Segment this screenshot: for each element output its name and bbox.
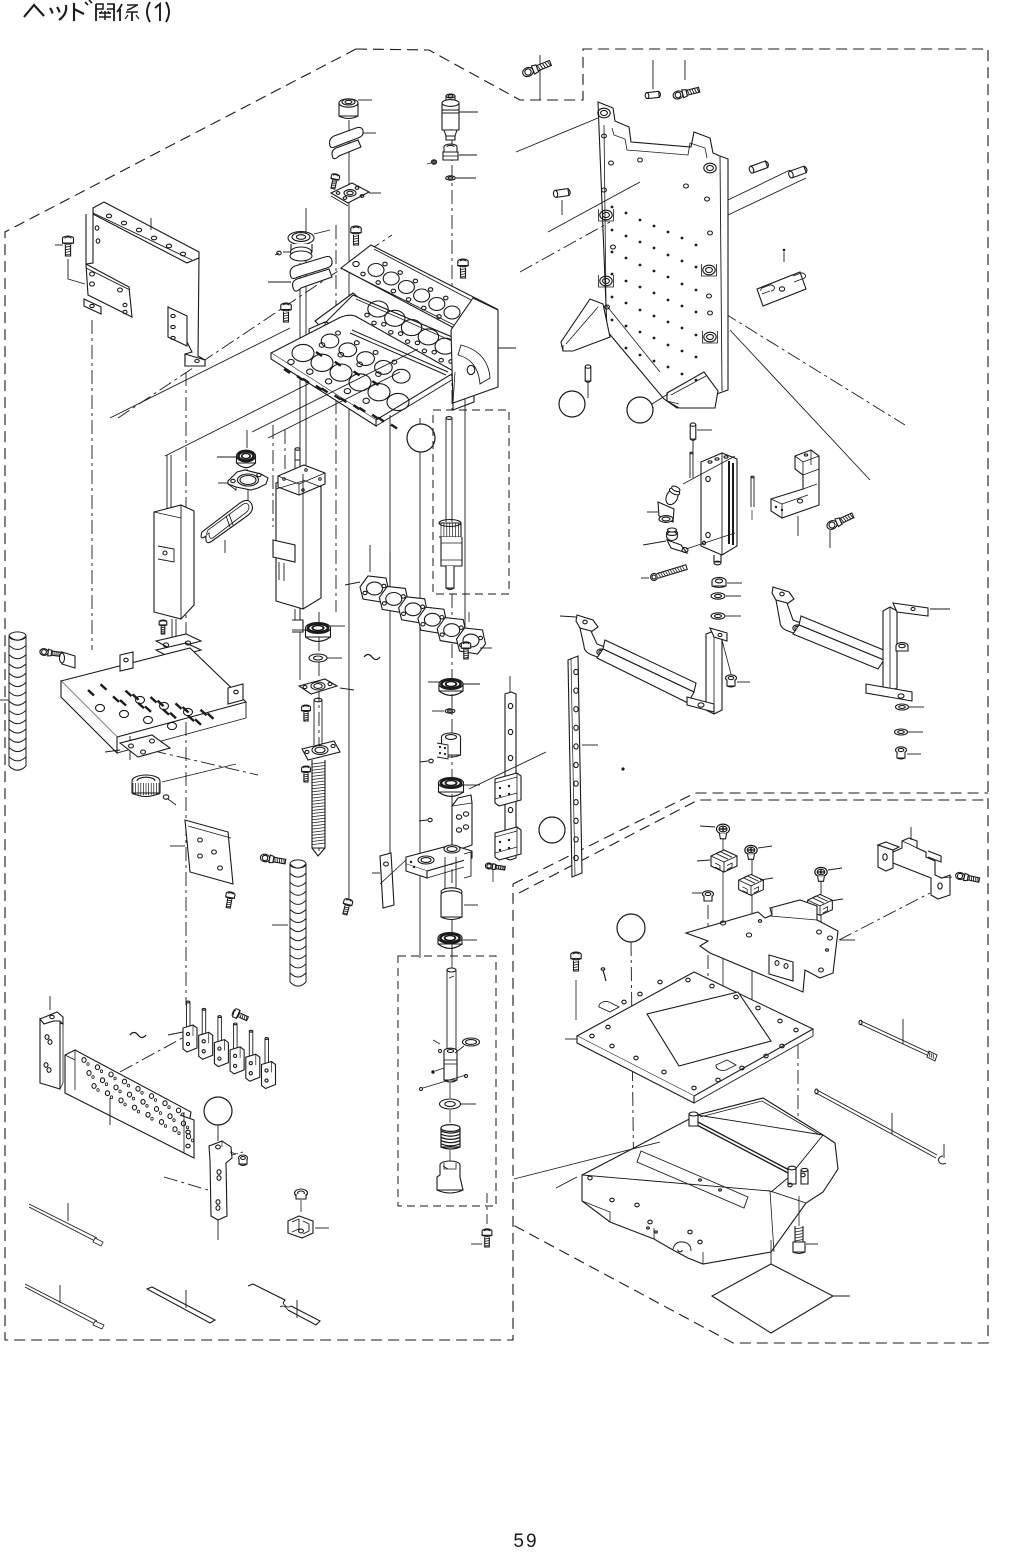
base box clamp bar — [689, 1112, 808, 1184]
centerline vertical left a — [91, 320, 93, 650]
washer N2 — [432, 709, 455, 713]
title one — [155, 4, 160, 21]
plate BL1 — [170, 820, 233, 884]
dashed boundary bottom-right region top (double) — [513, 793, 988, 893]
screw BR1 cross — [700, 824, 730, 1000]
ballscrew thread — [312, 760, 325, 856]
elbow fitting E1 — [647, 485, 682, 523]
leader frame diamond — [770, 1248, 772, 1298]
bottom plate holes A — [292, 344, 409, 410]
pin R7 — [690, 423, 712, 455]
centerline bottom-left diag — [120, 1036, 186, 1072]
bushing P1 — [339, 99, 372, 119]
screw M1 top-left — [55, 236, 85, 284]
manifold body — [683, 453, 737, 565]
solenoid1 body — [154, 455, 194, 640]
washer ST3 — [711, 613, 741, 619]
balloon BLB — [204, 1097, 232, 1141]
centerline z-plate to bracket — [839, 893, 930, 940]
screw BR8 — [940, 872, 980, 884]
block N3 — [420, 733, 461, 763]
right plate dot grid — [611, 206, 698, 382]
bearing BS1 — [292, 623, 345, 642]
balloon RB1 — [559, 391, 585, 417]
page number 59 — [513, 1531, 538, 1552]
valve row leaders — [345, 545, 492, 648]
screw BR2 cross — [745, 845, 772, 859]
Z-plate — [686, 900, 855, 992]
screw BL2 — [224, 891, 235, 908]
centerline bottom-left diag2 — [164, 1177, 208, 1190]
washer BS2 — [309, 654, 342, 662]
screw BR3 cross — [815, 867, 842, 881]
pin R2 — [645, 60, 661, 99]
mid tier holes — [365, 301, 472, 364]
clamp BL10 — [288, 1216, 329, 1238]
left base plate — [61, 648, 246, 760]
leader rail diag — [469, 752, 546, 789]
shaft BS5 — [314, 698, 322, 745]
screw D3 — [471, 1193, 492, 1247]
washer B4 — [895, 729, 924, 735]
bracket B — [772, 587, 950, 701]
clamp BR1b — [697, 850, 737, 872]
leader vertical c2 — [299, 263, 301, 680]
centerline bottom-right z3 — [797, 1045, 799, 1170]
bracket A — [560, 615, 731, 714]
title small-tsu — [50, 5, 66, 20]
screw S2 set — [39, 648, 75, 668]
right plate small holes — [602, 134, 713, 315]
dashed boundary left region — [5, 49, 513, 1340]
pin R1 — [553, 188, 571, 215]
pin BR6 — [601, 968, 606, 981]
leader bracket top — [150, 218, 152, 230]
pin V1 — [690, 452, 693, 478]
screw BS4 — [302, 705, 311, 721]
belt B2 — [201, 500, 252, 553]
pulley screw — [163, 795, 176, 805]
bushing P6 pulley — [283, 230, 330, 261]
threaded rod E3 — [641, 564, 688, 582]
grommet A2 — [726, 675, 751, 687]
shaft D1a — [439, 417, 462, 590]
nut ST1 — [712, 577, 742, 587]
diamond sheet — [712, 1264, 850, 1333]
flange F2 — [218, 470, 268, 503]
flange plates F1 — [156, 620, 204, 661]
pulley — [132, 764, 236, 797]
screw BR5 — [571, 952, 581, 1020]
clamp BR2b — [739, 874, 773, 895]
bottom plate slots — [284, 352, 397, 429]
left base plate slots — [88, 684, 214, 729]
centerline bottom-right z4 — [820, 879, 822, 968]
left base subplate — [105, 735, 170, 757]
base box slot — [637, 1151, 748, 1208]
bracket BL5 — [40, 996, 63, 1089]
leader vertical c5 — [419, 418, 421, 958]
belt clip P7 — [268, 257, 332, 292]
centerline bottom-right z2 — [751, 858, 753, 1010]
dashed box D2 — [398, 956, 496, 1206]
title paren-close — [166, 2, 169, 22]
screw BK0 — [231, 1008, 249, 1023]
screw P11 tiny — [427, 160, 437, 164]
right bracket BR7 — [878, 827, 950, 899]
leader vertical c6 — [464, 330, 466, 640]
U-block — [771, 450, 819, 536]
bracket sub-plate — [84, 264, 132, 317]
dashed boundary top notch — [356, 49, 988, 1343]
centerline ballscrew — [318, 612, 320, 855]
centerline bottom-right z1 — [707, 905, 709, 1008]
screw P14 — [458, 259, 468, 278]
pin V2 — [751, 476, 754, 520]
carriage block 1 — [495, 773, 521, 806]
bracket top-left U-frame — [86, 202, 205, 366]
perforated plate BL6 — [65, 1050, 194, 1158]
screw VB7 — [461, 642, 470, 659]
grommet B5 — [896, 747, 922, 759]
bottom plate holes B — [321, 334, 410, 383]
title he — [24, 5, 44, 17]
title kan — [96, 4, 114, 21]
centerline main head vertical — [335, 225, 337, 612]
right plate leaders — [516, 118, 806, 272]
balloon RB2 — [627, 394, 668, 423]
perforated plate holes — [82, 1058, 194, 1142]
perforated strip — [568, 656, 598, 877]
balloon LB1 — [539, 817, 565, 843]
centerline diagonal upper-left — [118, 235, 392, 418]
screw P13 horizontal — [521, 55, 552, 100]
screw P6b tiny — [275, 251, 281, 255]
leader diagonal L2 — [165, 382, 312, 456]
pin R5 — [788, 166, 808, 179]
centerline right-plate diag — [724, 313, 905, 425]
frame plate — [565, 972, 813, 1103]
base box notch — [673, 1242, 691, 1251]
centerline vertical left b — [185, 372, 187, 1005]
base box top edges — [582, 1101, 823, 1264]
screw UB2 — [826, 511, 855, 548]
balloon BRB — [617, 914, 645, 942]
air cylinder — [273, 448, 325, 632]
pin R6 — [585, 365, 591, 398]
head plate bottom — [271, 315, 455, 426]
title kei — [117, 4, 139, 21]
centerline diagonal lower-left — [128, 745, 258, 775]
leader LL1 — [252, 349, 418, 432]
centerline aircyl — [273, 425, 285, 527]
leader vertical c1 — [305, 208, 307, 470]
screw P8 — [281, 303, 291, 322]
flat bar 1 — [147, 1287, 215, 1323]
balloon HB1 — [407, 424, 435, 452]
right plate main — [598, 102, 728, 408]
bearing B1 — [217, 430, 256, 472]
head plate mid tier — [326, 295, 490, 380]
flange BS3 — [299, 679, 354, 694]
svg-text:59: 59 — [513, 1531, 538, 1552]
leader box left — [514, 1142, 660, 1188]
washer P12 — [446, 176, 476, 180]
tilde mark 2 — [130, 1033, 146, 1038]
dashed box D1 — [433, 410, 509, 594]
valve P9 — [442, 94, 478, 140]
screw RL1 — [485, 863, 505, 882]
right plate right foot — [667, 372, 718, 408]
carriage block 2 — [495, 827, 521, 860]
title do — [74, 0, 92, 21]
screw BS7 — [302, 766, 311, 782]
leader right-plate diag solid — [730, 330, 870, 480]
nozzle holder N6 — [441, 857, 478, 920]
belt clip P2 — [330, 127, 377, 158]
cable tie 1 — [29, 1203, 103, 1246]
right plate left foot — [561, 299, 610, 351]
bearing N7 — [438, 933, 477, 949]
title paren-open — [147, 2, 150, 22]
centerline bottom-right balloon — [631, 942, 634, 1203]
plate N6b — [372, 853, 406, 908]
pin block leader — [168, 1032, 183, 1035]
shaft D2a — [447, 950, 456, 1050]
washer D2c — [440, 1083, 477, 1109]
centerline nozzle column — [451, 140, 453, 956]
cable tie 2 — [25, 1284, 104, 1329]
top bar holes — [353, 261, 460, 319]
plate P4 — [331, 183, 381, 206]
elbow fitting E2 — [643, 528, 688, 553]
washer B3 — [896, 704, 925, 710]
head plate side wall — [451, 298, 516, 410]
bracket N5 — [406, 795, 472, 878]
clamp BR3b — [808, 894, 843, 915]
leader vertical c3 — [348, 120, 350, 898]
screw BB1 — [793, 1196, 818, 1254]
cup D2e — [437, 1150, 463, 1193]
screw R3 — [672, 60, 700, 100]
tilde mark 1 — [364, 655, 380, 660]
ballscrew flange BS6 — [302, 741, 340, 760]
grommet BR4 — [692, 891, 714, 901]
head plate top bar — [341, 245, 497, 336]
bearing N1 — [428, 679, 480, 696]
rod BR-R2 — [815, 1089, 946, 1164]
bottom plate holes small — [288, 331, 397, 403]
collar D2b — [420, 1038, 480, 1091]
spring D2d — [441, 1110, 460, 1149]
pin blocks row — [183, 1001, 276, 1088]
leader LL2 — [268, 372, 400, 438]
spring S1 — [0, 632, 26, 770]
base box — [582, 1098, 838, 1264]
base box holes — [588, 1173, 805, 1252]
bearing N4 — [439, 778, 481, 797]
leader vertical c4 — [389, 415, 391, 890]
valve block row — [360, 576, 486, 654]
pin R4 — [748, 160, 769, 173]
screw P5 — [351, 226, 361, 245]
grommet BL9 — [295, 1189, 308, 1212]
screw P3 — [329, 173, 340, 189]
leader diagonal L1 — [110, 328, 290, 418]
frame plate holes — [590, 978, 798, 1090]
fitting P10 — [443, 144, 477, 160]
dot mark — [621, 767, 624, 770]
arm bracket BL7 — [209, 1141, 243, 1240]
slotted strip R8 — [757, 249, 806, 306]
flat bar 2 with break — [248, 1284, 320, 1325]
rod BR-R1 — [859, 1019, 937, 1061]
linear rail — [505, 676, 516, 860]
washer ST2 — [711, 593, 741, 599]
right plate counterbores — [598, 108, 718, 343]
screw BL8 — [230, 1152, 248, 1166]
head mid wing — [309, 293, 360, 344]
spring BL4 — [272, 860, 306, 986]
screw BL3 horizontal — [260, 853, 286, 865]
screw N6c — [341, 898, 354, 916]
